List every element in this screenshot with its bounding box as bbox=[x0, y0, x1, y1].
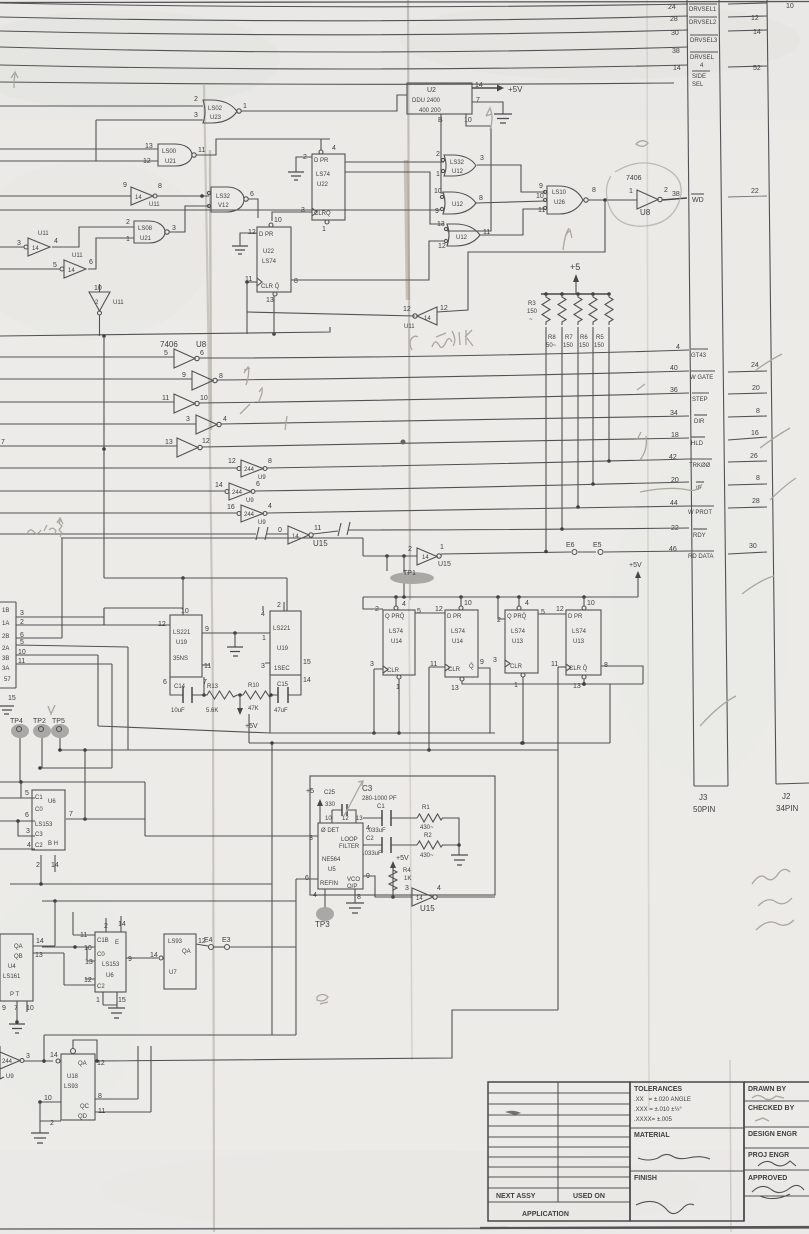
svg-text:MATERIAL: MATERIAL bbox=[634, 1132, 670, 1139]
svg-text:4: 4 bbox=[261, 611, 265, 618]
pll NE564 U5 bbox=[305, 816, 370, 901]
svg-text:14: 14 bbox=[32, 246, 39, 252]
wire in11 bbox=[0, 401, 174, 403]
wire HLD J2 bbox=[728, 437, 767, 440]
svg-text:1: 1 bbox=[629, 188, 633, 195]
wire U19b pin2 up bbox=[283, 602, 285, 611]
svg-text:U11: U11 bbox=[38, 231, 49, 237]
svg-text:QD: QD bbox=[78, 1114, 88, 1120]
flipflop U13 a LS74 bbox=[493, 597, 545, 689]
svg-text:150: 150 bbox=[594, 343, 605, 349]
pencil slash j2 c bbox=[770, 478, 796, 500]
wire U22t clk in bbox=[272, 212, 312, 221]
wire U13b clk bbox=[558, 666, 566, 668]
svg-text:150: 150 bbox=[563, 343, 574, 349]
svg-text:U14: U14 bbox=[391, 639, 403, 645]
svg-text:.033uF: .033uF bbox=[363, 851, 382, 857]
svg-text:1: 1 bbox=[262, 635, 266, 642]
svg-text:1: 1 bbox=[322, 226, 326, 233]
svg-text:REFIN: REFIN bbox=[320, 881, 338, 887]
wire pin3 input bbox=[145, 835, 318, 837]
svg-text:U19: U19 bbox=[277, 646, 289, 652]
svg-text:V12: V12 bbox=[218, 203, 229, 209]
svg-text:3: 3 bbox=[370, 661, 374, 668]
wire U2 pin7 bbox=[472, 102, 503, 114]
node junctions rail bbox=[394, 595, 398, 599]
svg-text:10: 10 bbox=[587, 600, 595, 607]
resistor R3 bbox=[542, 294, 550, 325]
oneshot LS221 U19 b bbox=[261, 602, 311, 684]
node junction 743 bbox=[521, 741, 525, 745]
wire C1 to R1 bbox=[391, 817, 417, 819]
svg-text:U23: U23 bbox=[210, 115, 222, 121]
wire x287 drop bbox=[286, 578, 288, 611]
node junction y743 bbox=[520, 741, 524, 745]
svg-text:244: 244 bbox=[2, 1059, 13, 1065]
svg-text:12: 12 bbox=[228, 458, 236, 465]
svg-text:4: 4 bbox=[54, 238, 58, 245]
svg-text:DRVSEL: DRVSEL bbox=[690, 55, 715, 61]
node junction y768 bbox=[38, 766, 42, 770]
svg-text:TP5: TP5 bbox=[52, 718, 65, 725]
ground U18 bbox=[31, 1133, 49, 1143]
flipflop U13 b LS74 bbox=[551, 597, 608, 690]
node junction rddata bbox=[544, 550, 548, 554]
svg-text:LS74: LS74 bbox=[451, 629, 466, 635]
svg-text:DRVSEL3: DRVSEL3 bbox=[690, 38, 718, 44]
svg-text:DRVSEL1: DRVSEL1 bbox=[689, 7, 717, 13]
svg-text:LS221: LS221 bbox=[173, 630, 191, 636]
wire U22b clk bbox=[247, 281, 257, 283]
fold crease left bbox=[204, 85, 214, 1232]
svg-text:2B: 2B bbox=[2, 634, 9, 640]
svg-text:C0: C0 bbox=[97, 952, 105, 958]
svg-text:J3: J3 bbox=[699, 793, 708, 802]
wire U12b in9 bbox=[0, 209, 440, 211]
wire LS02 input A bbox=[0, 105, 203, 107]
net DIR wire bbox=[221, 416, 689, 424]
node junction qa bbox=[95, 1059, 99, 1063]
svg-text:12: 12 bbox=[435, 606, 443, 613]
pencil smudge center bbox=[317, 995, 328, 1005]
pencil slash hld2 bbox=[637, 384, 645, 390]
node junction WD bbox=[603, 198, 607, 202]
svg-text:Q̄: Q̄ bbox=[469, 663, 474, 670]
wire R6 down bbox=[592, 327, 594, 484]
svg-text:APPROVED: APPROVED bbox=[748, 1175, 787, 1182]
svg-text:7406: 7406 bbox=[626, 175, 642, 182]
svg-text:50PIN: 50PIN bbox=[693, 805, 715, 814]
svg-text:16: 16 bbox=[227, 504, 235, 511]
svg-text:47K: 47K bbox=[248, 706, 259, 712]
power +5V arrow bbox=[472, 87, 497, 89]
svg-text:DRVSEL2: DRVSEL2 bbox=[689, 20, 717, 26]
wire E4 E3 link bbox=[214, 946, 224, 948]
svg-text:DIR: DIR bbox=[694, 419, 705, 425]
svg-text:12: 12 bbox=[438, 243, 446, 250]
svg-text:VCO: VCO bbox=[347, 877, 360, 883]
gate LS32 V12 bbox=[207, 187, 254, 212]
svg-text:13: 13 bbox=[356, 816, 363, 822]
fold crease right bbox=[647, 0, 649, 1110]
svg-text:U5: U5 bbox=[328, 867, 336, 873]
wire U22b pin12 ground bbox=[240, 233, 257, 246]
svg-text:10: 10 bbox=[434, 188, 442, 195]
gate LS32 U12 c bbox=[437, 221, 490, 250]
titleblock tolerances box bbox=[630, 1082, 744, 1221]
svg-text:11: 11 bbox=[538, 207, 545, 214]
wire U13a to U13b bbox=[538, 613, 566, 615]
svg-text:U9: U9 bbox=[246, 498, 254, 504]
svg-text:J2: J2 bbox=[782, 792, 791, 801]
flipflop U22 top LS74 bbox=[301, 145, 345, 233]
svg-text:14: 14 bbox=[753, 29, 761, 36]
wire U15 in bbox=[0, 533, 288, 535]
node junction R4 bbox=[391, 895, 395, 899]
gate LS32 U12 a bbox=[436, 151, 484, 178]
svg-text:8: 8 bbox=[158, 183, 162, 190]
wire LS08 out bbox=[169, 206, 209, 232]
wire U2 pinB down bbox=[441, 114, 443, 193]
node junction y578 bbox=[181, 576, 185, 580]
box analog section bbox=[310, 776, 495, 895]
svg-text:U8: U8 bbox=[640, 208, 651, 217]
wire y537 bbox=[61, 537, 363, 539]
wire x363 drop bbox=[362, 538, 364, 556]
svg-text:E3: E3 bbox=[222, 937, 231, 944]
wire U18 QD bbox=[95, 1046, 151, 1112]
signature proj bbox=[758, 1161, 796, 1166]
svg-text:LS74: LS74 bbox=[511, 629, 526, 635]
svg-text:15: 15 bbox=[118, 997, 126, 1004]
svg-text:U12: U12 bbox=[452, 169, 464, 175]
pencil slash j2 d bbox=[637, 432, 646, 460]
svg-text:U22: U22 bbox=[263, 249, 275, 255]
svg-text:15: 15 bbox=[303, 659, 311, 666]
wire pin13 to C1 bbox=[363, 817, 382, 819]
wire pin12 stub bbox=[104, 624, 170, 626]
svg-text:C1B: C1B bbox=[97, 938, 109, 944]
svg-text:10: 10 bbox=[464, 600, 472, 607]
svg-text:13: 13 bbox=[165, 439, 173, 446]
wire in5 bbox=[0, 356, 174, 358]
svg-text:5: 5 bbox=[541, 609, 545, 616]
wire U18 pin10 bbox=[40, 1101, 61, 1103]
svg-text:+5V: +5V bbox=[396, 855, 409, 862]
svg-text:R4: R4 bbox=[403, 868, 411, 874]
buffer U9 pin12-8 bbox=[228, 458, 272, 481]
pencil arrow topleft bbox=[11, 72, 18, 88]
svg-text:CLR Q̄: CLR Q̄ bbox=[569, 665, 588, 672]
svg-text:C1: C1 bbox=[35, 795, 43, 801]
wire U4 bottom bbox=[17, 1001, 27, 1022]
svg-text:U2: U2 bbox=[427, 87, 436, 94]
node junction x273 bbox=[272, 332, 276, 336]
svg-text:34PIN: 34PIN bbox=[776, 804, 798, 813]
wire R3 down bbox=[545, 327, 547, 551]
node junction clk bbox=[245, 280, 249, 284]
wire DIR J2 bbox=[728, 416, 767, 417]
svg-text:SIDE: SIDE bbox=[692, 74, 706, 80]
svg-text:U19: U19 bbox=[176, 640, 188, 646]
svg-text:1: 1 bbox=[436, 171, 440, 178]
top sheet border bbox=[0, 2, 809, 3]
testpoint TP1 bbox=[390, 572, 434, 584]
inverter U15 b bbox=[405, 885, 441, 913]
wire chip pin wires bbox=[16, 538, 270, 768]
svg-text:W GATE: W GATE bbox=[690, 375, 713, 381]
svg-text:12: 12 bbox=[556, 606, 564, 613]
svg-text:14: 14 bbox=[215, 482, 223, 489]
wire U22b q out bbox=[291, 241, 444, 280]
testpoint TP3 bbox=[324, 889, 326, 912]
svg-text:7: 7 bbox=[476, 97, 480, 104]
svg-text:+5V: +5V bbox=[245, 723, 258, 730]
svg-text:E6: E6 bbox=[566, 542, 575, 549]
gate LS08 U21 bbox=[126, 219, 176, 243]
svg-text:9: 9 bbox=[205, 626, 209, 633]
svg-text:14: 14 bbox=[36, 938, 44, 945]
wire x249 stub bbox=[248, 714, 250, 743]
svg-text:10: 10 bbox=[44, 1095, 52, 1102]
svg-text:TOLERANCES: TOLERANCES bbox=[634, 1086, 682, 1093]
wire U12a out bbox=[477, 165, 545, 192]
svg-text:D PR: D PR bbox=[314, 158, 329, 164]
ground between oneshots bbox=[234, 633, 236, 647]
signature approved bbox=[752, 1185, 804, 1198]
pencil circle around U8 bbox=[606, 163, 681, 226]
svg-text:9: 9 bbox=[123, 182, 127, 189]
svg-text:47uF: 47uF bbox=[274, 708, 288, 714]
node junction r13 bbox=[202, 693, 206, 697]
wire TRK00 J2 bbox=[728, 461, 767, 462]
svg-text:LS93: LS93 bbox=[64, 1084, 79, 1090]
wire U15b out bbox=[437, 896, 495, 898]
wire x145 drop bbox=[145, 782, 160, 836]
svg-text:1K: 1K bbox=[404, 876, 411, 882]
svg-text:330: 330 bbox=[325, 802, 336, 808]
svg-text:8: 8 bbox=[294, 278, 298, 285]
svg-text:5: 5 bbox=[25, 790, 29, 797]
svg-text:R13: R13 bbox=[207, 684, 219, 690]
svg-text:14: 14 bbox=[292, 534, 299, 540]
svg-text:~: ~ bbox=[529, 317, 533, 323]
svg-text:11: 11 bbox=[198, 147, 205, 154]
svg-text:14: 14 bbox=[50, 1052, 58, 1059]
svg-text:280-1000 PF: 280-1000 PF bbox=[362, 796, 397, 802]
wire bus DRVSEL3 bbox=[0, 30, 688, 35]
gate LS02 U23 bbox=[194, 96, 247, 123]
svg-text:U11: U11 bbox=[404, 324, 415, 330]
wire y1035 bbox=[44, 1035, 296, 1063]
svg-text:14: 14 bbox=[135, 195, 142, 201]
wire U4 QB out bbox=[33, 953, 95, 985]
svg-text:DRAWN BY: DRAWN BY bbox=[748, 1086, 786, 1093]
wire R7 down bbox=[577, 327, 579, 507]
svg-text:+5V: +5V bbox=[508, 85, 523, 94]
node junction u9d bbox=[42, 1059, 46, 1063]
svg-text:7406: 7406 bbox=[160, 340, 178, 349]
svg-text:24: 24 bbox=[751, 362, 759, 369]
svg-text:NEXT ASSY: NEXT ASSY bbox=[496, 1193, 536, 1200]
svg-text:11: 11 bbox=[314, 525, 321, 532]
svg-text:USED ON: USED ON bbox=[573, 1193, 605, 1200]
wire pin13 net y684 bbox=[462, 679, 643, 684]
wire y311 lineA bbox=[247, 312, 415, 316]
svg-text:R8: R8 bbox=[548, 335, 556, 341]
svg-text:13: 13 bbox=[437, 221, 445, 228]
svg-text:C3: C3 bbox=[362, 784, 373, 793]
svg-text:20: 20 bbox=[752, 385, 760, 392]
wire U6a inputs bbox=[0, 782, 35, 849]
svg-text:E: E bbox=[115, 940, 119, 946]
svg-text:10: 10 bbox=[274, 217, 282, 224]
svg-text:14: 14 bbox=[416, 896, 423, 902]
svg-text:8: 8 bbox=[756, 475, 760, 482]
svg-text:150: 150 bbox=[527, 309, 538, 315]
wire y750 bbox=[58, 749, 558, 751]
signature finish squiggle bbox=[636, 1201, 694, 1213]
wire y733 bbox=[430, 732, 495, 734]
power +5V oneshot bbox=[239, 695, 241, 708]
wire U8 out to WD bbox=[662, 198, 687, 200]
svg-text:NE564: NE564 bbox=[322, 857, 341, 863]
net HLD wire bbox=[202, 438, 689, 447]
svg-text:3: 3 bbox=[405, 885, 409, 892]
svg-text:4: 4 bbox=[223, 416, 227, 423]
svg-text:1: 1 bbox=[514, 682, 518, 689]
svg-text:12: 12 bbox=[202, 438, 210, 445]
wire U11a out bbox=[157, 195, 209, 197]
wire U6b out9 bbox=[126, 957, 158, 959]
svg-text:1A: 1A bbox=[2, 621, 9, 627]
svg-text:U15: U15 bbox=[313, 539, 328, 548]
svg-text:U12: U12 bbox=[452, 202, 464, 208]
node junction R5 bbox=[607, 459, 611, 463]
node junction 734 bbox=[397, 731, 401, 735]
pencil smudge small bbox=[401, 440, 406, 445]
svg-text:2: 2 bbox=[436, 151, 440, 158]
jumper E5 bbox=[598, 550, 603, 555]
net RDDATA wire bbox=[441, 551, 689, 554]
wire pin9 to gnd and U19b bbox=[202, 632, 270, 634]
svg-text:52: 52 bbox=[753, 65, 761, 72]
svg-text:P T: P T bbox=[10, 992, 19, 998]
svg-text:PROJ ENGR: PROJ ENGR bbox=[748, 1152, 789, 1159]
net RDY wire bbox=[313, 528, 689, 534]
svg-text:LS153: LS153 bbox=[35, 822, 53, 828]
inverter U8 pin3-4 bbox=[186, 415, 227, 434]
wire U6b top pins bbox=[106, 916, 121, 932]
pencil slash j2 a bbox=[756, 354, 782, 370]
svg-text:9: 9 bbox=[435, 208, 439, 215]
svg-text:U4: U4 bbox=[8, 964, 16, 970]
svg-text:14: 14 bbox=[673, 65, 681, 72]
svg-text:10: 10 bbox=[786, 3, 794, 10]
svg-text:38: 38 bbox=[672, 48, 680, 55]
svg-text:11: 11 bbox=[551, 661, 558, 668]
svg-text:1: 1 bbox=[96, 997, 100, 1004]
gate LS00 U21 bbox=[143, 143, 205, 166]
inverter U15 RDY bbox=[278, 525, 328, 548]
inverter U11 d down bbox=[89, 285, 124, 315]
svg-text:12: 12 bbox=[84, 977, 92, 984]
node junction y901 bbox=[53, 899, 57, 903]
svg-text:430~: 430~ bbox=[420, 825, 434, 831]
pencil scribble u17a bbox=[27, 525, 56, 535]
wire U14a clk bbox=[374, 669, 383, 733]
node junction y336 bbox=[102, 334, 106, 338]
wire x272 long bbox=[271, 743, 273, 1035]
resistor R13 bbox=[204, 691, 237, 699]
svg-text:CLR Q̄: CLR Q̄ bbox=[261, 283, 280, 290]
svg-text:10: 10 bbox=[84, 945, 92, 952]
signature checked bbox=[755, 1118, 769, 1121]
pencil smudge mid bbox=[636, 141, 648, 147]
wire U12c out bbox=[480, 209, 545, 235]
svg-text:LS10: LS10 bbox=[552, 190, 567, 196]
svg-text:U15: U15 bbox=[420, 904, 435, 913]
svg-text:E5: E5 bbox=[593, 542, 602, 549]
wire U13a pin2 bbox=[498, 597, 505, 619]
node junction R6 bbox=[591, 482, 595, 486]
oneshot LS221 U19 a bbox=[158, 608, 211, 686]
svg-text:C15: C15 bbox=[277, 682, 289, 688]
net STEP wire bbox=[199, 393, 689, 403]
node junction x104 bbox=[102, 447, 106, 451]
svg-text:13: 13 bbox=[85, 959, 93, 966]
svg-text:3A: 3A bbox=[2, 666, 9, 672]
svg-text:LS32: LS32 bbox=[216, 194, 231, 200]
svg-text:Q PRQ̄: Q PRQ̄ bbox=[385, 613, 405, 620]
wire U6a out7 bbox=[66, 818, 145, 820]
wire staircase right bbox=[97, 1010, 558, 1061]
svg-text:8: 8 bbox=[756, 408, 760, 415]
svg-text:U11: U11 bbox=[113, 300, 124, 306]
node junction 684 bbox=[582, 682, 586, 686]
ground U22b bbox=[232, 246, 248, 254]
wire U18 QC bbox=[95, 1046, 138, 1099]
wire U11c out bbox=[88, 238, 134, 269]
svg-text:LS08: LS08 bbox=[138, 226, 153, 232]
svg-text:6: 6 bbox=[163, 679, 167, 686]
wire pin9 to U15 bbox=[363, 876, 412, 897]
wire bus DRVSEL2 bbox=[0, 16, 688, 21]
wire U14b q via x490 bbox=[478, 668, 490, 733]
svg-text:12: 12 bbox=[342, 816, 349, 822]
ground U5 pin8 bbox=[354, 889, 356, 903]
wire pin6 input bbox=[296, 878, 318, 880]
resistor R5 bbox=[605, 294, 613, 325]
svg-text:QB: QB bbox=[14, 954, 23, 960]
net GT43 wire bbox=[199, 350, 689, 358]
svg-text:C25: C25 bbox=[324, 790, 336, 796]
wire J2 stub row4 bbox=[728, 66, 767, 67]
gate LS32 U12 b bbox=[434, 188, 483, 215]
svg-text:LS74: LS74 bbox=[389, 629, 404, 635]
svg-text:QA: QA bbox=[78, 1061, 87, 1067]
svg-text:U21: U21 bbox=[140, 236, 152, 242]
wire U18 pin2 gnd bbox=[40, 1102, 61, 1133]
wire U11b in bbox=[0, 246, 24, 248]
svg-text:4: 4 bbox=[268, 503, 272, 510]
capacitor C2 bbox=[382, 837, 391, 853]
svg-text:1: 1 bbox=[126, 236, 130, 243]
titleblock grid left bbox=[488, 1082, 630, 1221]
svg-text:DESIGN ENGR: DESIGN ENGR bbox=[748, 1131, 797, 1138]
svg-text:RD DATA: RD DATA bbox=[688, 554, 713, 560]
svg-text:STEP: STEP bbox=[692, 397, 708, 403]
